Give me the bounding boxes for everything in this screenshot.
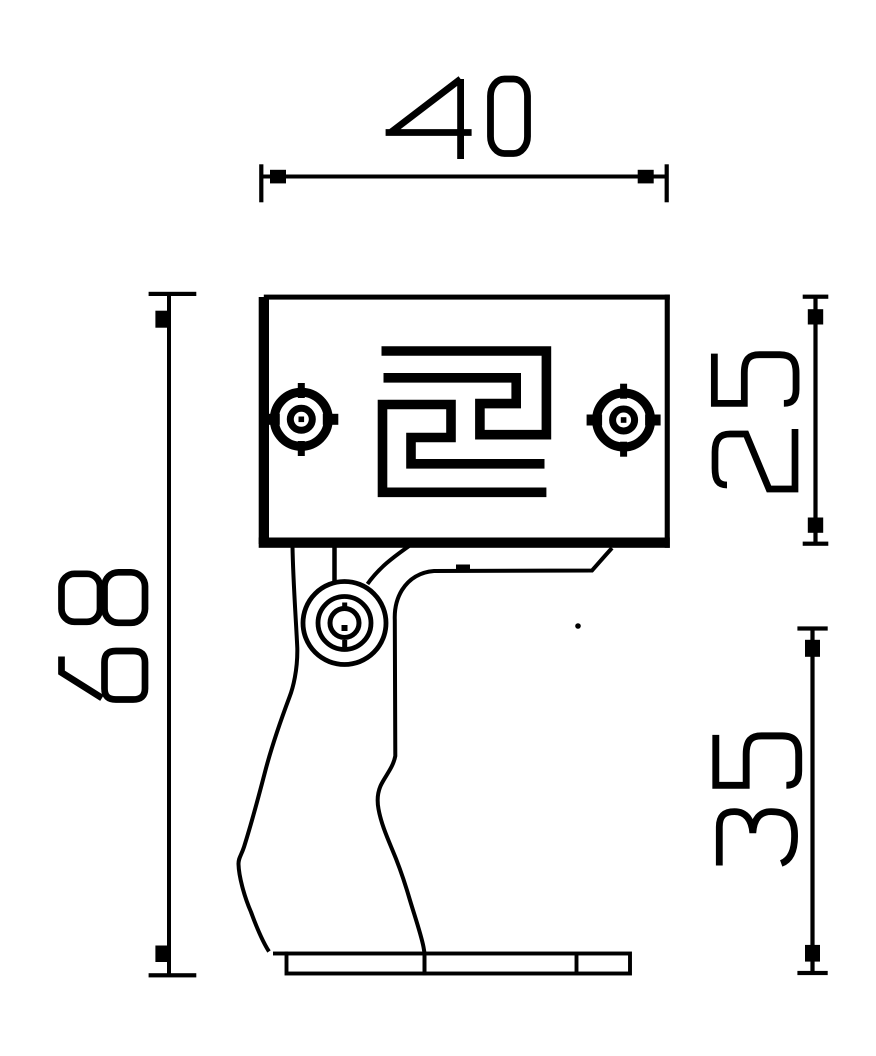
base top overhang line — [273, 952, 288, 956]
dimension 35 top tick — [797, 626, 827, 630]
dimension text 35 digit 5 (rotated) — [716, 735, 799, 785]
dimension text 68 digit 6 (rotated) — [62, 651, 146, 700]
screw right outer circle — [597, 393, 651, 447]
dimension 68 bottom arrow square — [155, 946, 169, 963]
dimension 40 left arrow square — [270, 170, 286, 184]
screw left inner circle — [290, 408, 312, 430]
dimension text 25 digit 5 (rotated) — [714, 354, 796, 404]
dimension 40 left tick — [259, 164, 263, 202]
dimension 35 line — [810, 628, 814, 973]
logo lower spiral — [383, 405, 547, 493]
plate top edge — [264, 295, 670, 300]
screw left tick east — [323, 414, 339, 425]
screw left tick north — [298, 383, 305, 398]
dimension text 35 digit 3 (rotated) — [719, 812, 794, 866]
dimension 25 bottom arrow square — [808, 518, 823, 533]
dimension 35 bottom tick — [797, 971, 827, 975]
pivot inner circle — [330, 609, 359, 638]
plate bottom edge — [259, 538, 670, 548]
dimension 35 bottom arrow square — [805, 945, 820, 962]
arm lower curve and stand right outline — [378, 548, 612, 975]
screw right tick west — [587, 415, 603, 426]
dimension 68 top arrow square — [155, 311, 169, 328]
pivot tick south — [342, 640, 347, 649]
pivot tick north — [342, 603, 347, 612]
base outline — [287, 954, 631, 974]
dimension 68 bottom tick — [149, 973, 197, 977]
screw left tick south — [298, 441, 305, 456]
speck dot — [575, 623, 581, 629]
screw right inner circle — [613, 409, 635, 431]
dimension 25 top tick — [803, 295, 829, 299]
dimension 40 right tick — [665, 164, 669, 202]
stand neck left line and left outline — [238, 546, 297, 952]
dimension text 25 digit 2 (rotated) — [715, 429, 795, 489]
screw left center dot — [299, 417, 305, 423]
pivot middle circle — [318, 597, 371, 650]
dimension 35 top arrow square — [805, 640, 820, 657]
arm line bump — [456, 565, 470, 573]
dimension 68 line — [167, 294, 171, 976]
pivot center dot — [342, 625, 348, 631]
dimension text 68 digit 8 (rotated) — [62, 572, 146, 623]
screw right center dot — [621, 417, 627, 423]
screw right tick north — [620, 384, 627, 399]
screw right tick south — [620, 442, 627, 457]
dimension 68 top tick — [149, 292, 197, 296]
pivot outer circle — [303, 582, 386, 665]
arm upper curve — [368, 546, 410, 584]
plate left edge — [259, 297, 269, 544]
dimension text 40 digit 4 — [386, 79, 472, 159]
dimension 25 bottom tick — [803, 542, 829, 546]
dimension 25 top arrow square — [808, 309, 823, 324]
screw right tick east — [645, 415, 661, 426]
screw left tick west — [264, 414, 280, 425]
base divider line — [575, 954, 579, 974]
dimension 40 right arrow square — [638, 170, 654, 184]
logo upper spiral — [382, 351, 547, 435]
stand neck right line — [332, 546, 337, 581]
dimension text 40 digit 0 — [491, 79, 528, 154]
dimension 25 line — [813, 296, 817, 543]
plate right edge — [665, 295, 670, 548]
dimension 40 line — [261, 175, 667, 179]
screw left outer circle — [274, 392, 328, 446]
